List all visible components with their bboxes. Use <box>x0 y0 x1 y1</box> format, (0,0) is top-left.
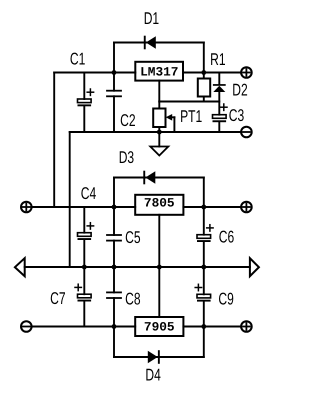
wire: second left rail from gnd rail to center rail <box>69 132 71 267</box>
wire: center common rail <box>25 266 250 268</box>
svg-text:R1: R1 <box>210 50 225 69</box>
diode D1 <box>144 36 156 50</box>
wire: D3 loop right vertical <box>203 178 205 208</box>
diode D4 <box>148 350 160 364</box>
capacitor C2 <box>107 73 121 133</box>
junction dot rail C4/C7 <box>82 265 87 270</box>
terminal + mid right <box>241 202 252 213</box>
ground symbol <box>150 132 168 156</box>
wire: D4 loop left vertical <box>113 327 115 358</box>
wire: mid wire right of 7805 <box>183 206 241 208</box>
resistor R1 <box>198 73 210 102</box>
connector arrow left <box>15 258 25 276</box>
terminal + top right <box>241 67 252 78</box>
svg-text:C2: C2 <box>120 111 135 130</box>
wire: bottom wire left of 7905 <box>32 326 136 328</box>
wire: bottom wire right of 7905 <box>183 326 241 328</box>
regulator U2 7805 <box>135 195 183 215</box>
regulator U3 7905 <box>135 317 183 336</box>
diode D2 <box>213 73 226 115</box>
svg-text:C7: C7 <box>50 289 65 308</box>
terminal - bottom left <box>21 321 32 332</box>
svg-text:C9: C9 <box>218 290 233 309</box>
svg-text:C5: C5 <box>125 228 140 247</box>
junction dot at LM317 output <box>201 70 206 75</box>
wire: ADJ node horizontal <box>159 101 219 103</box>
junction dot rail C6/C9 <box>201 265 206 270</box>
svg-text:LM317: LM317 <box>140 64 178 79</box>
wire: D1 bypass loop right vertical <box>203 43 205 73</box>
potentiometer PT1 <box>153 102 174 133</box>
wire: left rail from top wire to mid wire <box>53 73 55 208</box>
terminal - right of C3 <box>241 127 252 138</box>
svg-text:PT1: PT1 <box>180 107 202 126</box>
capacitor C9 <box>195 267 210 327</box>
svg-text:C3: C3 <box>229 106 244 125</box>
capacitor C6 <box>197 207 213 267</box>
capacitor C3 <box>213 104 228 132</box>
svg-text:C6: C6 <box>219 228 234 247</box>
terminal + bottom right <box>241 321 252 332</box>
capacitor C8 <box>107 267 121 327</box>
pin GND of 7805 <box>158 215 160 267</box>
terminal + mid left <box>21 202 32 213</box>
wire: D4 loop bottom horizontal <box>114 356 204 358</box>
capacitor C7 <box>75 267 91 327</box>
junction dot rail C5/C8 <box>112 265 117 270</box>
junction dot D4 right <box>201 324 206 329</box>
junction dot D4 left <box>112 324 117 329</box>
svg-text:C1: C1 <box>70 49 85 68</box>
svg-text:D3: D3 <box>119 148 134 167</box>
pin GND of 7905 <box>158 267 160 317</box>
junction dot D3 left <box>112 205 117 210</box>
junction dot at LM317 input <box>112 70 117 75</box>
svg-text:7905: 7905 <box>144 320 175 335</box>
wire: mid wire left of 7805 <box>32 206 136 208</box>
capacitor C1 <box>78 73 94 133</box>
connector arrow right <box>250 258 259 276</box>
junction dot D3 right <box>201 205 206 210</box>
junction dot at PT1 bottom <box>157 130 162 135</box>
svg-text:7805: 7805 <box>144 195 175 210</box>
capacitor C5 <box>107 207 121 267</box>
wire: top main wire right of LM317 to + terminal <box>183 72 241 74</box>
svg-text:D4: D4 <box>145 366 160 385</box>
wire: D4 loop right vertical <box>203 327 205 358</box>
regulator U1 LM317 <box>135 62 183 81</box>
pin ADJ of LM317 <box>158 81 160 102</box>
svg-text:C8: C8 <box>125 289 140 308</box>
svg-text:D2: D2 <box>232 81 247 100</box>
diode D3 <box>143 171 155 185</box>
wire: D3 loop left vertical <box>113 178 115 208</box>
wire: D3 loop top horizontal <box>114 177 204 179</box>
wire: top main wire left of LM317 <box>54 72 135 74</box>
capacitor C4 <box>78 207 94 267</box>
wire: D1 bypass loop top horizontal <box>114 42 204 44</box>
wire: D1 bypass loop left vertical <box>113 43 115 73</box>
junction dot rail regulators GND <box>157 265 162 270</box>
svg-text:D1: D1 <box>144 9 159 28</box>
svg-text:C4: C4 <box>81 184 96 203</box>
wire: ground rail of top section <box>70 131 242 133</box>
